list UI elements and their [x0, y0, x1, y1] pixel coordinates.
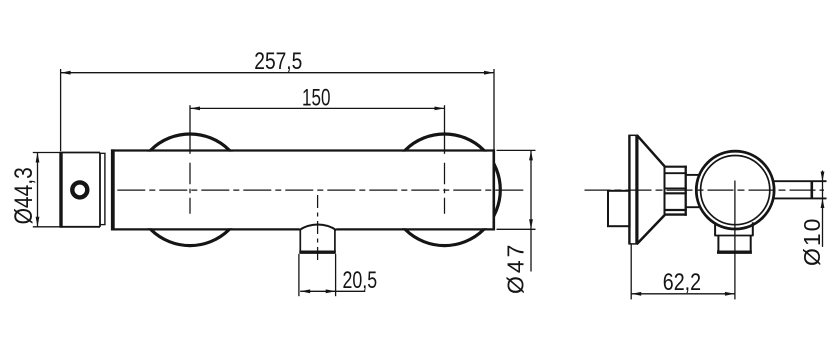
centerline vertical right rosette: [444, 163, 446, 216]
rosette escutcheon left (front view): [134, 134, 500, 246]
dimension 62,2: [631, 244, 735, 300]
escutcheon cone (side view): [637, 136, 664, 244]
mixer body tube (front view): [111, 149, 495, 230]
bottom outlet (front view): [299, 225, 337, 297]
neck between nut and body (side view): [686, 175, 701, 207]
svg-text:Ø44,3: Ø44,3: [9, 167, 37, 224]
dimension 150: [190, 105, 445, 154]
centerline vertical bottom outlet: [317, 195, 319, 262]
dimension Ø47: [497, 150, 536, 271]
svg-text:150: 150: [302, 85, 330, 112]
dimension 20,5: [300, 289, 365, 293]
svg-text:62,2: 62,2: [663, 268, 701, 295]
knurled nut (side view): [664, 166, 687, 216]
screw hole on end cap: [72, 182, 87, 197]
mixer body circle outer (side view): [696, 151, 774, 229]
centerline vertical left rosette: [189, 163, 191, 216]
dimension Ø44,3: [33, 153, 61, 227]
svg-text:20,5: 20,5: [343, 267, 378, 293]
escutcheon disc (side view): [628, 135, 637, 244]
bottom outlet (side view): [714, 222, 753, 252]
collar ring between cap and tube: [100, 153, 106, 224]
svg-text:Ø47: Ø47: [503, 242, 529, 294]
mixer body circle inner (side view): [701, 156, 770, 225]
centerline horizontal (front view): [117, 189, 526, 191]
left end cap / handle (front view): [60, 152, 100, 228]
svg-text:257,5: 257,5: [254, 47, 302, 75]
svg-text:Ø10: Ø10: [799, 217, 825, 266]
dimension 257,5: [61, 69, 494, 151]
rosette escutcheon right (front view): [389, 134, 501, 246]
dimension Ø10: [821, 171, 825, 247]
centerline horizontal (side view): [585, 189, 825, 191]
wall union nipple (side view): [608, 191, 630, 226]
hose outlet stub right (side view): [773, 181, 827, 198]
centerline vertical outlet (side view): [734, 181, 736, 300]
